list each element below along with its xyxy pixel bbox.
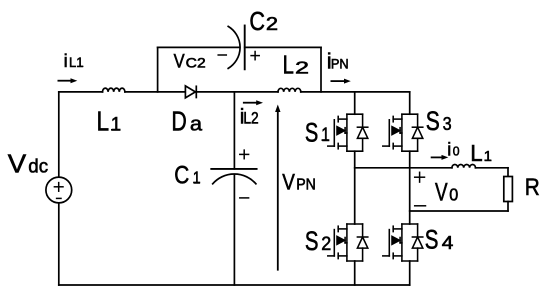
wire: right bridge leg drop to S3 — [409, 92, 411, 114]
wire: left vertical below source — [58, 203, 60, 285]
diode Da triangle — [185, 86, 195, 98]
svg-text:1: 1 — [484, 148, 492, 165]
current arrow iL2 — [243, 100, 263, 105]
svg-text:V: V — [8, 151, 26, 179]
wire: bottom rail — [59, 284, 410, 286]
wire: C2 branch right horizontal — [245, 46, 321, 48]
label L1 subscript foot bar — [111, 129, 120, 131]
svg-text:a: a — [190, 114, 203, 136]
svg-text:4: 4 — [442, 233, 454, 253]
svg-text:V: V — [282, 169, 295, 194]
wire: left vertical above source — [58, 92, 60, 177]
wire: node A riser to C2 branch — [157, 47, 159, 92]
resistor R box — [504, 177, 513, 202]
wire: top rail from L2 to bridge — [301, 91, 410, 93]
svg-text:S: S — [305, 117, 318, 147]
svg-text:i: i — [447, 139, 451, 159]
wire: right bridge leg below S4 — [409, 261, 411, 285]
capacitor C1 straight plate — [211, 168, 256, 170]
svg-text:L: L — [97, 105, 110, 136]
capacitor C2 curved plate — [228, 26, 240, 68]
C1 plus sign — [240, 153, 249, 155]
capacitor C2 straight plate — [244, 26, 246, 70]
wire: load right vertical lower — [507, 202, 509, 212]
V0 plus sign — [415, 176, 425, 178]
switch S2 (MOSFET with antiparallel diode) — [328, 224, 368, 261]
inductor L1 output filter coil — [452, 164, 476, 167]
svg-text:1: 1 — [321, 125, 330, 146]
svg-text:i: i — [64, 50, 68, 71]
svg-text:C: C — [249, 6, 265, 36]
current arrow i0 — [431, 155, 449, 160]
svg-text:S: S — [425, 225, 439, 255]
svg-text:PN: PN — [296, 176, 316, 193]
Vdc plus sign — [54, 186, 63, 188]
svg-text:V: V — [435, 179, 448, 207]
svg-text:PN: PN — [331, 57, 349, 72]
wire: top rail between Da and L2 — [196, 91, 278, 93]
svg-text:L: L — [283, 51, 294, 79]
svg-text:V: V — [174, 52, 185, 73]
svg-text:S: S — [426, 106, 440, 136]
label S1 subscript foot bar — [322, 139, 329, 141]
wire: node P drop from C2 branch — [320, 47, 322, 92]
C1 minus sign — [240, 197, 249, 199]
svg-text:C: C — [174, 162, 189, 189]
switch S3 (MOSFET with antiparallel diode) — [383, 114, 423, 151]
label C1 subscript foot bar — [193, 182, 200, 184]
wire: left bridge leg drop to S1 — [354, 92, 356, 114]
svg-text:D: D — [171, 105, 186, 136]
svg-text:C2: C2 — [186, 55, 206, 71]
svg-text:S: S — [305, 226, 319, 256]
svg-text:2: 2 — [266, 13, 278, 34]
wire: C1 branch lower vertical — [233, 174, 235, 285]
svg-text:1: 1 — [111, 115, 121, 136]
V0 minus sign — [415, 205, 426, 207]
switch S4 (MOSFET with antiparallel diode) — [383, 224, 423, 261]
current arrow iL1 — [58, 78, 78, 83]
Vdc minus sign — [57, 197, 61, 199]
wire: left bridge leg below S2 — [354, 261, 356, 285]
C2 minus sign — [218, 54, 226, 56]
svg-text:2: 2 — [295, 57, 309, 77]
voltage source Vdc circle — [46, 177, 72, 203]
svg-text:0: 0 — [453, 143, 460, 158]
svg-text:0: 0 — [449, 185, 458, 205]
svg-text:L: L — [470, 140, 482, 166]
wire: C1 branch upper vertical — [233, 92, 235, 169]
label L1 output subscript foot bar — [484, 159, 490, 161]
switch S1 (MOSFET with antiparallel diode) — [328, 114, 368, 151]
svg-text:3: 3 — [443, 114, 452, 134]
svg-text:L1: L1 — [69, 55, 83, 70]
inductor L1 coil — [103, 88, 125, 92]
wire: output plus rail to load corner — [476, 167, 509, 169]
svg-text:dc: dc — [28, 157, 48, 178]
wire: load right vertical upper — [507, 168, 509, 177]
svg-text:2: 2 — [321, 234, 331, 255]
voltage arrow VPN — [275, 105, 280, 271]
svg-text:L2: L2 — [243, 109, 258, 128]
wire: C2 branch left horizontal — [158, 46, 240, 48]
wire: output plus rail from left leg — [355, 167, 452, 169]
current arrow iPN — [331, 79, 351, 84]
inductor L2 coil — [278, 88, 301, 92]
svg-text:R: R — [525, 174, 540, 201]
capacitor C1 curved plate — [213, 174, 256, 184]
wire: output minus rail — [410, 210, 508, 212]
wire: top rail left segment — [59, 91, 103, 93]
svg-text:1: 1 — [193, 167, 201, 187]
wire: right bridge leg S3 to S4 — [409, 151, 411, 224]
C2 plus sign — [251, 55, 259, 57]
diode Da cathode bar — [195, 86, 197, 97]
wire: top rail between L1 and Da — [125, 91, 185, 93]
label iL1 subscript foot bar — [80, 65, 84, 67]
wire: left bridge leg S1 to S2 — [354, 151, 356, 224]
